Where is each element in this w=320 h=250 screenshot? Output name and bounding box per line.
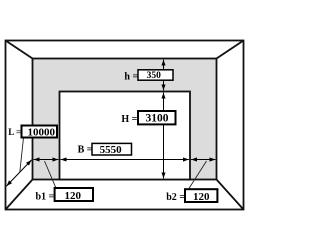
perspective edge top-left <box>6 41 33 59</box>
svg-text:B =: B = <box>78 144 93 155</box>
svg-text:3100: 3100 <box>146 112 169 124</box>
svg-text:120: 120 <box>64 190 81 202</box>
leader b1 <box>45 161 57 189</box>
value box H <box>138 111 176 124</box>
svg-text:120: 120 <box>193 191 210 203</box>
svg-text:H =: H = <box>121 114 137 125</box>
value box h <box>138 70 173 80</box>
dimension H line <box>163 93 165 179</box>
leader L <box>20 138 24 173</box>
svg-text:350: 350 <box>147 71 162 81</box>
perspective edge top-right <box>217 41 244 59</box>
value box b2 <box>185 189 217 202</box>
svg-text:b1 =: b1 = <box>36 192 55 203</box>
dimension b2 line <box>191 159 215 161</box>
svg-text:h =: h = <box>124 71 138 82</box>
svg-text:5550: 5550 <box>100 144 123 156</box>
perspective edge bottom-right <box>217 180 244 210</box>
perspective edge bottom-left <box>6 180 33 210</box>
dimension h arrow lower <box>163 81 165 91</box>
outer room frame <box>6 41 244 210</box>
dimension L arrow <box>6 160 31 186</box>
dimension B line <box>61 159 189 161</box>
value box b1 <box>55 188 93 201</box>
far wall <box>33 59 217 180</box>
leader b2 <box>188 161 206 190</box>
svg-text:L =: L = <box>8 127 21 137</box>
svg-text:10000: 10000 <box>28 126 56 138</box>
opening <box>60 92 191 180</box>
dimension b1 line <box>34 159 59 161</box>
dimension h arrow upper <box>163 60 165 71</box>
value box B <box>92 143 132 155</box>
svg-text:b2 =: b2 = <box>166 192 185 203</box>
value box L <box>22 126 58 138</box>
